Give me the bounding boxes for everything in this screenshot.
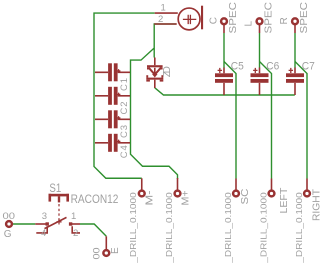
label M- xyxy=(145,191,156,206)
wire net switch pin1 to E pad xyxy=(80,224,106,236)
label _DRILL_0.1000 (RIGHT) xyxy=(294,192,304,264)
pin number 1 (mic) xyxy=(161,3,166,14)
switch S1 dashed actuator line xyxy=(58,204,60,221)
capacitor C3 xyxy=(95,110,130,138)
label E xyxy=(110,247,121,254)
svg-text:RACON12: RACON12 xyxy=(71,194,119,206)
pad LEFT xyxy=(269,179,275,197)
label SPEC (C pad) xyxy=(228,1,239,33)
wire net zener bottom to caps C5 C6 C7 bottoms xyxy=(155,88,295,95)
label M+ xyxy=(180,190,191,205)
svg-text:RIGHT: RIGHT xyxy=(312,189,320,221)
pin number 2 xyxy=(73,228,78,239)
svg-text:C7: C7 xyxy=(302,61,315,73)
capacitor C2 xyxy=(95,87,130,115)
svg-text:_DRILL_0.1000: _DRILL_0.1000 xyxy=(294,192,304,264)
svg-text:SPEC: SPEC xyxy=(299,1,310,33)
pin number 3 xyxy=(42,211,47,222)
svg-text:S1: S1 xyxy=(49,183,61,195)
svg-text:E: E xyxy=(110,247,121,254)
switch S1 RACON12 actuator xyxy=(49,194,70,203)
label ZD xyxy=(162,66,173,77)
svg-text:2: 2 xyxy=(73,228,78,239)
wire net R pad to cap C7 and RIGHT pad xyxy=(295,33,307,179)
svg-text:_DRILL_0.1000: _DRILL_0.1000 xyxy=(164,192,174,264)
svg-text:C5: C5 xyxy=(231,61,244,73)
pin number 4 xyxy=(41,228,46,239)
label SPEC (L pad) xyxy=(264,1,275,33)
label 00 (G pad) xyxy=(3,211,16,222)
label _DRILL_0.1000 (M-) xyxy=(128,192,138,264)
svg-text:_DRILL_0.1000: _DRILL_0.1000 xyxy=(259,192,269,264)
svg-text:4: 4 xyxy=(41,228,46,239)
pad M+ xyxy=(175,178,181,196)
svg-text:LEFT: LEFT xyxy=(279,188,290,214)
label S1 xyxy=(49,183,61,195)
pad C (top) xyxy=(221,18,227,33)
pin number 1 xyxy=(71,211,76,222)
label _DRILL_0.1000 (SC) xyxy=(223,192,233,264)
capacitor C6 xyxy=(251,61,280,95)
zener diode ZD xyxy=(146,58,163,89)
label LEFT xyxy=(279,188,290,214)
svg-text:_DRILL_0.1000: _DRILL_0.1000 xyxy=(128,192,138,264)
label SPEC (R pad) xyxy=(299,1,310,33)
switch S1 pin 2 xyxy=(72,226,80,233)
svg-text:SC: SC xyxy=(240,189,251,205)
svg-text:G: G xyxy=(4,229,12,240)
label RIGHT xyxy=(312,189,320,221)
capacitor C1 xyxy=(95,63,130,91)
microphone pin 2 lead xyxy=(154,23,177,25)
svg-text:SPEC: SPEC xyxy=(264,1,275,33)
wire net L pad to cap C6 and LEFT pad xyxy=(260,33,272,179)
pad E xyxy=(103,236,109,256)
switch S1 pin 3 xyxy=(35,222,49,225)
label C xyxy=(208,17,219,24)
svg-text:C6: C6 xyxy=(266,61,279,73)
svg-text:SPEC: SPEC xyxy=(228,1,239,33)
switch S1 pin 4 xyxy=(36,226,47,233)
capacitor C5 xyxy=(215,61,244,95)
label G xyxy=(4,229,12,240)
wire net C pad to cap C5 and SC pad xyxy=(224,33,236,179)
label L xyxy=(243,21,254,27)
svg-text:C2: C2 xyxy=(119,102,130,115)
wire net G pad to switch pin3 xyxy=(13,223,36,225)
svg-text:1: 1 xyxy=(161,3,166,14)
svg-text:_DRILL_0.1000: _DRILL_0.1000 xyxy=(223,192,233,264)
svg-text:ZD: ZD xyxy=(162,66,173,77)
capacitor C4 xyxy=(95,134,130,158)
pad SC xyxy=(233,179,239,197)
svg-text:M+: M+ xyxy=(180,190,191,205)
switch S1 pin 1 xyxy=(69,222,80,225)
svg-text:C: C xyxy=(208,17,219,24)
wire net MIC1 from mic pin1 left and down left bus to M- xyxy=(94,13,155,178)
svg-text:C4: C4 xyxy=(119,145,130,158)
label 00 (E pad) xyxy=(92,248,103,260)
label _DRILL_0.1000 (M+) xyxy=(164,192,174,264)
svg-text:1: 1 xyxy=(71,211,76,222)
pad L (top) xyxy=(257,18,263,33)
svg-text:2: 2 xyxy=(158,14,163,25)
switch S1 pivot cross xyxy=(56,219,61,224)
pad R (top) xyxy=(292,18,298,33)
svg-text:M-: M- xyxy=(145,191,156,206)
capacitor C7 xyxy=(286,61,315,95)
svg-text:00: 00 xyxy=(92,248,103,260)
microphone MIC body xyxy=(178,6,203,30)
wire net MIC2 from mic pin2 down to zener and right bus to M+ xyxy=(131,24,178,179)
label R xyxy=(279,17,290,24)
label SC xyxy=(240,189,251,205)
microphone pin 1 lead xyxy=(155,12,178,14)
svg-text:L: L xyxy=(243,21,254,27)
pad M- xyxy=(139,178,145,196)
switch S1 contact bar xyxy=(45,217,67,228)
svg-text:C3: C3 xyxy=(119,125,130,138)
pad RIGHT xyxy=(304,179,310,197)
svg-text:3: 3 xyxy=(42,211,47,222)
label RACON12 xyxy=(71,194,119,206)
label _DRILL_0.1000 (LEFT) xyxy=(259,192,269,264)
pad G xyxy=(6,221,12,227)
svg-text:00: 00 xyxy=(3,211,16,222)
svg-text:R: R xyxy=(279,17,290,24)
svg-text:C1: C1 xyxy=(119,78,130,91)
pin number 2 (mic) xyxy=(158,14,163,25)
